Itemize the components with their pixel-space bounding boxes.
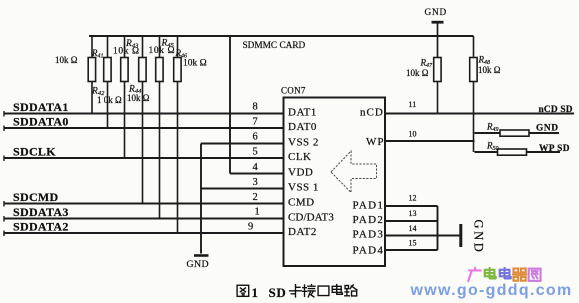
wire SDCMD to pin 2	[4, 203, 284, 205]
svg-text:PAD3: PAD3	[353, 229, 385, 241]
svg-text:PAD1: PAD1	[353, 200, 385, 212]
node SDDATA1 left tick	[3, 111, 5, 117]
svg-text:1 0k Ω: 1 0k Ω	[97, 95, 122, 105]
svg-text:11: 11	[409, 100, 417, 109]
caption 图1 SD卡接口电路	[237, 285, 249, 296]
svg-text:nCD: nCD	[360, 107, 384, 119]
wire VDD vertical to pin 4	[229, 36, 231, 174]
svg-text:GND: GND	[187, 259, 209, 270]
svg-text:GND: GND	[425, 8, 448, 18]
resistor R43	[121, 36, 128, 158]
svg-text:10k Ω: 10k Ω	[149, 46, 176, 56]
resistor R46	[174, 36, 181, 233]
svg-text:CD/DAT3: CD/DAT3	[288, 212, 334, 224]
svg-text:SDMMC CARD: SDMMC CARD	[243, 41, 306, 51]
svg-text:CON7: CON7	[281, 86, 306, 96]
svg-text:SDDATA0: SDDATA0	[13, 115, 69, 129]
svg-text:8: 8	[253, 102, 258, 113]
wire R50 to WP_SD	[475, 151, 561, 153]
svg-text:6: 6	[253, 132, 258, 143]
wire PAD4 pin 15	[385, 249, 438, 251]
ground GND bottom symbol	[187, 256, 209, 271]
wire SDCLK to pin 5	[4, 157, 284, 159]
chip U1 CON7 connector body	[284, 98, 386, 267]
wire pin 4 VDD	[230, 173, 284, 175]
svg-text:WP: WP	[366, 136, 385, 148]
svg-text:10k Ω: 10k Ω	[127, 93, 150, 103]
svg-text:GND: GND	[472, 220, 486, 255]
svg-text:PAD4: PAD4	[353, 245, 385, 257]
node SDDATA0 left tick	[3, 126, 5, 132]
svg-text:14: 14	[409, 224, 417, 233]
wire PAD1 pin 12	[385, 205, 438, 207]
resistor R42	[104, 36, 111, 128]
node SDCMD left tick	[3, 201, 5, 207]
resistor R45	[156, 36, 163, 219]
glyph 口	[318, 286, 329, 296]
svg-text:www.go-gddq.com: www.go-gddq.com	[410, 282, 573, 299]
wire VSS1 pin 3	[201, 188, 284, 190]
wire WP pin 10	[385, 140, 475, 142]
wire PAD bracket junction	[437, 206, 439, 250]
svg-text:10k Ω: 10k Ω	[478, 65, 501, 75]
wire PAD2 pin 13	[385, 220, 438, 222]
wire nCD pin 11	[385, 113, 574, 115]
svg-text:1: 1	[255, 207, 260, 218]
resistor R49	[500, 130, 529, 136]
wire PAD3 pin 14	[385, 235, 460, 237]
glyph 电	[332, 285, 342, 295]
watermark 广电电器网	[468, 268, 540, 281]
svg-text:WP SD: WP SD	[539, 144, 570, 154]
wire VSS vertical to ground	[200, 144, 202, 254]
svg-text:7: 7	[253, 117, 258, 128]
svg-text:SDDATA2: SDDATA2	[13, 220, 69, 234]
glyph 接	[303, 285, 315, 297]
svg-text:nCD SD: nCD SD	[539, 105, 573, 115]
op-amp arrow symbol inside connector	[331, 151, 377, 193]
wire R49 to GND	[475, 132, 560, 134]
svg-text:GND: GND	[536, 124, 559, 134]
svg-text:10: 10	[409, 130, 417, 139]
svg-text:10k Ω: 10k Ω	[406, 68, 429, 78]
resistor R48	[470, 36, 477, 152]
node SDDATA2 left tick	[3, 231, 5, 237]
resistor R41	[88, 36, 95, 114]
svg-text:DAT1: DAT1	[288, 107, 317, 119]
svg-text:5: 5	[253, 147, 258, 158]
svg-text:CMD: CMD	[288, 197, 315, 209]
node SDCLK left tick	[3, 156, 5, 162]
svg-text:9: 9	[248, 222, 253, 233]
svg-text:13: 13	[409, 209, 417, 218]
ground PAD GND bar	[459, 224, 462, 247]
svg-text:SDDATA3: SDDATA3	[13, 205, 69, 219]
wire SDDATA0 to pin 7	[4, 127, 284, 129]
wire VSS2 pin 6	[201, 143, 284, 145]
glyph 图	[237, 285, 249, 296]
resistor R44	[139, 36, 146, 204]
svg-text:VSS 1: VSS 1	[288, 182, 319, 194]
resistor R50	[498, 149, 527, 155]
node SDDATA3 left tick	[3, 216, 5, 222]
svg-text:VDD: VDD	[288, 167, 313, 179]
svg-text:10k Ω: 10k Ω	[113, 47, 140, 57]
svg-text:R49: R49	[486, 122, 499, 134]
wire SDDATA1 to pin 8	[4, 113, 284, 115]
svg-text:DAT0: DAT0	[288, 121, 317, 133]
wire top pull-up bus	[89, 35, 474, 37]
svg-text:2: 2	[253, 192, 258, 203]
ground GND top	[425, 8, 448, 58]
svg-text:SDDATA1: SDDATA1	[13, 100, 69, 114]
glyph 卡	[290, 285, 302, 297]
wire SDDATA2 to pin 9	[4, 232, 284, 234]
svg-text:VSS 2: VSS 2	[288, 137, 319, 149]
svg-text:PAD2: PAD2	[353, 214, 385, 226]
svg-text:SDCMD: SDCMD	[13, 190, 59, 204]
svg-text:12: 12	[409, 194, 417, 203]
wire SDDATA3 to pin 1	[4, 218, 284, 220]
svg-text:4: 4	[253, 162, 259, 173]
svg-text:10k Ω: 10k Ω	[55, 55, 78, 65]
svg-text:10k Ω: 10k Ω	[183, 59, 207, 69]
svg-text:R41: R41	[91, 48, 104, 60]
svg-text:R50: R50	[486, 141, 499, 153]
glyph 路	[345, 285, 357, 296]
svg-text:3: 3	[253, 177, 258, 188]
svg-text:15: 15	[409, 239, 417, 248]
svg-text:DAT2: DAT2	[288, 226, 317, 238]
svg-text:SD: SD	[269, 285, 287, 300]
svg-text:SDCLK: SDCLK	[13, 145, 56, 159]
svg-text:CLK: CLK	[288, 151, 312, 163]
resistor R47	[434, 58, 441, 114]
svg-text:1: 1	[252, 285, 259, 300]
